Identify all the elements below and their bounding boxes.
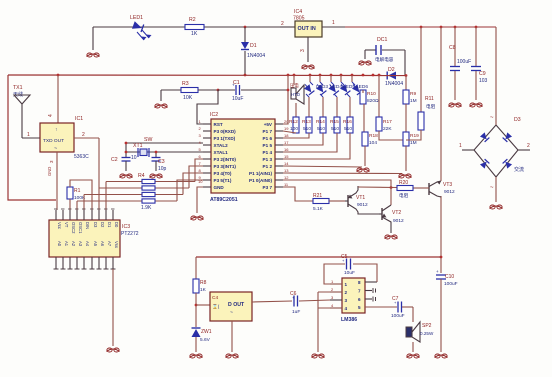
svg-text:A1: A1 <box>64 241 69 247</box>
svg-text:1M: 1M <box>410 140 417 146</box>
svg-text:2: 2 <box>527 143 530 149</box>
svg-text:DIN: DIN <box>85 222 90 229</box>
svg-text:16: 16 <box>284 147 289 152</box>
svg-text:2: 2 <box>281 21 284 27</box>
svg-text:VT3: VT3 <box>443 182 452 188</box>
svg-text:C2: C2 <box>111 157 118 163</box>
svg-text:~: ~ <box>230 310 233 316</box>
svg-text:IC2: IC2 <box>210 112 218 118</box>
svg-text:A2: A2 <box>71 241 76 247</box>
svg-text:103: 103 <box>479 78 488 84</box>
svg-text:AT89C2051: AT89C2051 <box>210 197 238 203</box>
svg-text:R15: R15 <box>330 119 339 125</box>
svg-text:R8: R8 <box>200 280 207 286</box>
svg-text:电阻: 电阻 <box>399 192 409 199</box>
svg-text:DC1: DC1 <box>377 37 387 43</box>
svg-text:R21: R21 <box>313 193 322 199</box>
svg-text:~: ~ <box>490 115 494 121</box>
svg-text:P3 4(T0): P3 4(T0) <box>214 171 232 176</box>
svg-text:A0: A0 <box>57 241 62 247</box>
svg-text:电解电容: 电解电容 <box>375 56 394 63</box>
svg-text:1K: 1K <box>200 287 207 293</box>
svg-text:10K: 10K <box>183 95 193 101</box>
svg-text:P1 2: P1 2 <box>263 164 273 169</box>
svg-text:6: 6 <box>358 297 361 302</box>
svg-text:5.6V: 5.6V <box>200 337 211 343</box>
svg-text:P3 7: P3 7 <box>263 185 273 190</box>
svg-text:C8: C8 <box>449 45 456 51</box>
svg-text:Vcc: Vcc <box>57 222 62 229</box>
svg-text:10p: 10p <box>158 166 167 172</box>
svg-text:R13: R13 <box>302 119 311 125</box>
svg-text:510: 510 <box>344 126 352 132</box>
svg-text:9012: 9012 <box>444 189 455 195</box>
svg-text:7: 7 <box>358 289 361 294</box>
svg-text:IC4: IC4 <box>294 9 302 15</box>
svg-text:OUT IN: OUT IN <box>298 26 316 32</box>
svg-text:10uF: 10uF <box>232 96 243 102</box>
svg-text:+5V: +5V <box>264 122 273 127</box>
svg-text:D2: D2 <box>100 222 105 228</box>
svg-text:R4: R4 <box>138 173 145 179</box>
svg-text:8: 8 <box>358 280 361 285</box>
svg-text:D1: D1 <box>107 222 112 228</box>
svg-text:100: 100 <box>290 126 298 132</box>
svg-text:压电: 压电 <box>290 82 299 89</box>
svg-text:P1 0(AIN0): P1 0(AIN0) <box>249 178 272 183</box>
svg-text:2: 2 <box>345 290 348 295</box>
svg-text:12: 12 <box>284 175 289 180</box>
svg-text:LED6: LED6 <box>356 84 368 90</box>
svg-text:R16: R16 <box>343 119 352 125</box>
svg-text:1: 1 <box>345 282 348 287</box>
svg-text:100uF: 100uF <box>457 59 471 65</box>
svg-text:VT1: VT1 <box>356 195 365 201</box>
svg-text:P1 4: P1 4 <box>263 150 273 155</box>
svg-text:OSC1: OSC1 <box>78 222 83 234</box>
svg-text:VT: VT <box>64 222 69 228</box>
svg-text:1uF: 1uF <box>292 309 300 315</box>
svg-text:SW: SW <box>144 137 152 143</box>
svg-text:IC1: IC1 <box>75 116 83 122</box>
svg-text:4: 4 <box>48 114 54 117</box>
svg-text:VT2: VT2 <box>392 210 401 216</box>
svg-text:Vss: Vss <box>114 241 119 248</box>
svg-text:IC3: IC3 <box>122 224 130 230</box>
svg-text:A5: A5 <box>93 241 98 247</box>
svg-text:+: + <box>436 269 439 274</box>
svg-text:19: 19 <box>284 126 289 131</box>
svg-text:9012: 9012 <box>393 218 404 224</box>
svg-text:C3: C3 <box>158 159 165 165</box>
svg-text:15: 15 <box>284 154 289 159</box>
svg-text:交流: 交流 <box>514 166 524 173</box>
svg-text:17: 17 <box>284 140 289 145</box>
svg-text:P3 0(RXD): P3 0(RXD) <box>214 129 237 134</box>
svg-text:XTAL1: XTAL1 <box>214 150 229 155</box>
svg-text:PT2272: PT2272 <box>121 231 139 237</box>
svg-text:P1 3: P1 3 <box>263 157 273 162</box>
svg-text:R12: R12 <box>289 119 298 125</box>
svg-text:D2: D2 <box>388 67 395 73</box>
svg-text:D3: D3 <box>514 117 521 123</box>
svg-text:100uF: 100uF <box>444 281 458 287</box>
svg-text:LM386: LM386 <box>341 317 357 323</box>
svg-text:XT1: XT1 <box>133 143 143 149</box>
svg-text:P3 1(TXD): P3 1(TXD) <box>214 136 236 141</box>
svg-text:1M: 1M <box>410 98 417 104</box>
svg-text:LED1: LED1 <box>130 15 143 21</box>
svg-text:+: + <box>232 83 235 88</box>
svg-text:820Ω: 820Ω <box>367 98 379 104</box>
svg-text:A7: A7 <box>107 241 112 247</box>
svg-text:电阻: 电阻 <box>426 103 436 110</box>
svg-text:1.9K: 1.9K <box>141 205 152 211</box>
svg-text:R18: R18 <box>369 133 378 139</box>
svg-text:R1: R1 <box>74 188 81 194</box>
svg-text:XTAL2: XTAL2 <box>214 143 229 148</box>
svg-text:13: 13 <box>284 168 289 173</box>
svg-text:P1 5: P1 5 <box>263 143 273 148</box>
svg-text:3: 3 <box>300 49 306 52</box>
svg-text:~: ~ <box>54 146 57 152</box>
svg-text:D OUT: D OUT <box>228 302 245 308</box>
svg-text:D3: D3 <box>93 222 98 228</box>
svg-text:R9: R9 <box>410 91 416 97</box>
svg-text:GND: GND <box>47 167 52 176</box>
svg-text:LED3: LED3 <box>316 84 328 90</box>
svg-text:1N4004: 1N4004 <box>385 81 403 87</box>
svg-text:A6: A6 <box>100 241 105 247</box>
svg-text:HTD: HTD <box>291 92 300 97</box>
svg-text:10uF: 10uF <box>344 270 355 276</box>
svg-text:18: 18 <box>284 133 289 138</box>
svg-text:1K: 1K <box>191 31 198 37</box>
svg-text:⌛(: ⌛( <box>212 303 220 310</box>
svg-text:P1 1(AIN1): P1 1(AIN1) <box>249 171 272 176</box>
svg-text:P1 6: P1 6 <box>263 136 273 141</box>
svg-text:0.25W: 0.25W <box>420 331 434 336</box>
svg-text:104: 104 <box>369 140 377 146</box>
svg-text:D0: D0 <box>114 222 119 228</box>
svg-text:A4: A4 <box>85 241 90 247</box>
svg-text:1N4004: 1N4004 <box>247 53 265 59</box>
svg-text:A3: A3 <box>78 241 83 247</box>
svg-text:R19: R19 <box>410 133 419 139</box>
svg-text:3: 3 <box>345 298 348 303</box>
svg-text:9012: 9012 <box>357 202 368 208</box>
svg-text:TX1: TX1 <box>13 85 23 91</box>
svg-text:1: 1 <box>332 20 335 26</box>
svg-text:7805: 7805 <box>293 16 305 22</box>
svg-text:R10: R10 <box>367 91 376 97</box>
svg-text:C4: C4 <box>212 295 218 301</box>
svg-text:RST: RST <box>214 122 223 127</box>
svg-text:R3: R3 <box>182 81 189 87</box>
svg-text:P3 5(T1): P3 5(T1) <box>214 178 232 183</box>
svg-text:↑: ↑ <box>55 127 58 133</box>
svg-text:P3 3(INT1): P3 3(INT1) <box>214 164 237 169</box>
svg-text:P1 7: P1 7 <box>263 129 273 134</box>
svg-text:22K: 22K <box>383 126 392 132</box>
svg-text:510: 510 <box>331 126 339 132</box>
svg-text:R11: R11 <box>425 96 434 102</box>
svg-text:1: 1 <box>27 132 30 138</box>
svg-text:5.1K: 5.1K <box>313 206 324 212</box>
svg-text:SP2: SP2 <box>422 323 432 329</box>
svg-text:2: 2 <box>82 132 85 138</box>
svg-text:C10: C10 <box>445 274 454 280</box>
svg-text:510: 510 <box>317 126 325 132</box>
svg-text:D1: D1 <box>250 43 257 49</box>
svg-text:100uF: 100uF <box>391 313 405 319</box>
svg-text:TXD OUT: TXD OUT <box>43 138 64 144</box>
svg-text:10: 10 <box>131 155 137 161</box>
svg-text:5: 5 <box>358 305 361 310</box>
svg-text:GND: GND <box>214 185 225 190</box>
svg-text:R17: R17 <box>383 119 392 125</box>
svg-text:LED4: LED4 <box>330 84 342 90</box>
svg-text:R14: R14 <box>316 119 325 125</box>
svg-text:1: 1 <box>459 143 462 149</box>
svg-text:5363C: 5363C <box>74 154 89 160</box>
svg-text:P3 2(INT0): P3 2(INT0) <box>214 157 237 162</box>
svg-text:4: 4 <box>345 306 348 311</box>
svg-text:~: ~ <box>490 185 494 191</box>
svg-text:OSC2: OSC2 <box>71 222 76 234</box>
svg-text:ZW1: ZW1 <box>201 329 212 335</box>
svg-text:C9: C9 <box>479 71 486 77</box>
svg-text:14: 14 <box>284 161 289 166</box>
svg-text:510: 510 <box>303 126 311 132</box>
svg-text:R2: R2 <box>189 17 196 23</box>
